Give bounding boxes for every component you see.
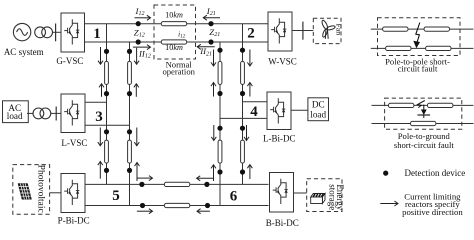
wire converter3 top xyxy=(85,101,107,103)
svg-text:5: 5 xyxy=(112,188,120,204)
wire vertical pole line left outer (1-3-5) xyxy=(106,24,108,185)
photovoltaic dashed box xyxy=(13,165,50,215)
svg-text:short-circuit fault: short-circuit fault xyxy=(394,140,455,150)
reactor L13 top inner xyxy=(128,61,132,84)
busbar mark top-left xyxy=(55,24,57,42)
wire top bus positive pole row1 xyxy=(85,23,269,25)
svg-text:load: load xyxy=(7,111,23,121)
reactor 10km top (line 1-2 pos pole) xyxy=(161,22,186,26)
energy storage label xyxy=(327,184,344,210)
arrow I12 xyxy=(135,17,151,19)
wire converter6 to energy storage xyxy=(294,192,307,194)
converter U3 box xyxy=(61,94,85,133)
reactor on 5-6 top pole xyxy=(164,182,189,186)
arrow II12 xyxy=(133,46,151,48)
svg-text:positive direction: positive direction xyxy=(402,207,463,217)
reactor L46 left xyxy=(218,140,222,163)
legend reactors top line xyxy=(383,27,408,31)
wire converter2 to fan xyxy=(292,30,313,32)
legend direction arrow xyxy=(380,203,398,205)
svg-text:operation: operation xyxy=(162,67,195,77)
legend pole-to-ground dashed box xyxy=(385,98,462,129)
detection dots vertical links bottom pair xyxy=(104,129,109,134)
arrow link 3-5 up outer xyxy=(99,162,101,179)
arrows link 4-6 down xyxy=(213,125,215,141)
converter U6 box xyxy=(270,173,294,213)
transformer T1 xyxy=(35,27,53,38)
svg-text:Detection device: Detection device xyxy=(405,168,466,178)
reactor L35 outer xyxy=(105,140,109,163)
legend reactors bottom line xyxy=(386,46,411,50)
corner arrows at node6 xyxy=(213,165,215,181)
wire T1 to bar xyxy=(52,31,61,33)
wire converter3 bottom xyxy=(85,124,130,126)
wire bottom bus negative pole row1 xyxy=(85,41,269,43)
detection dots vertical links top pair xyxy=(104,49,109,54)
fan icon xyxy=(321,20,336,39)
reactor L46 right xyxy=(241,140,245,163)
svg-text:L-VSC: L-VSC xyxy=(61,138,87,148)
svg-text:4: 4 xyxy=(250,104,258,120)
photovoltaic panel icon xyxy=(18,184,32,200)
energy storage dashed box xyxy=(307,179,342,212)
svg-text:L-Bi-DC: L-Bi-DC xyxy=(263,134,296,144)
reactor L24 top right xyxy=(241,61,245,84)
reactor L24 top left xyxy=(218,61,222,84)
DC load box xyxy=(308,98,329,121)
svg-text:circuit fault: circuit fault xyxy=(398,63,438,73)
svg-text:B-Bi-DC: B-Bi-DC xyxy=(266,218,299,228)
arrow 5-6 bottom right xyxy=(197,210,210,212)
arrow I21 xyxy=(203,17,220,19)
arrow link 4-6 up outer xyxy=(249,165,251,179)
arrow 5-6 bottom left xyxy=(137,210,153,212)
svg-text:G-VSC: G-VSC xyxy=(56,56,83,66)
reactor L35 inner xyxy=(128,140,132,163)
svg-text:AC system: AC system xyxy=(4,47,44,57)
svg-text:W-VSC: W-VSC xyxy=(268,56,297,66)
wire top bus row3 (5-6) xyxy=(85,183,269,185)
wire converter4 to DC load xyxy=(291,109,308,111)
fan dashed box xyxy=(313,18,341,43)
AC load box xyxy=(3,101,29,123)
converter U2 box xyxy=(268,12,292,51)
lightning bolt pole-to-pole xyxy=(413,23,420,49)
svg-text:3: 3 xyxy=(95,109,103,125)
AC system source xyxy=(13,23,30,40)
arrows link 3-5 down xyxy=(99,128,101,146)
converter U5 box xyxy=(61,174,85,213)
legend pole-to-pole dashed box xyxy=(378,18,461,56)
wire T2 to converter 3 xyxy=(50,112,61,114)
wire converter4 top xyxy=(243,101,268,103)
transformer T2 xyxy=(33,108,51,119)
svg-text:Photovoltaic: Photovoltaic xyxy=(35,165,45,213)
wire PV to converter 5 xyxy=(50,192,61,194)
arrow II21 xyxy=(197,46,215,48)
reactor 10km bottom (line 1-2 neg pole) xyxy=(161,40,186,44)
wire vertical pole line left inner (1-3-5) xyxy=(129,42,131,206)
arrows link 2-4 down xyxy=(213,50,215,67)
wire vertical pole line right outer (2-4-6) xyxy=(219,42,221,206)
reactor L13 top outer xyxy=(105,61,109,84)
wire bottom bus row3 (5-6) xyxy=(85,205,269,207)
busbar mark top-right xyxy=(302,22,304,40)
arrows link 2-4 up xyxy=(213,83,215,97)
svg-text:Fan: Fan xyxy=(334,23,343,35)
legend pole-to-ground top line xyxy=(372,104,474,106)
normal operation dashed box xyxy=(154,5,196,59)
arrows link 1-3 up xyxy=(101,84,103,97)
corner arrows at node5 xyxy=(136,163,138,182)
svg-text:10km: 10km xyxy=(165,10,183,19)
svg-text:storage: storage xyxy=(327,184,337,210)
svg-text:1: 1 xyxy=(93,26,101,42)
legend pole-to-pole lines xyxy=(371,28,474,30)
wire AC load to transformer xyxy=(27,112,34,114)
svg-text:load: load xyxy=(310,109,326,119)
busbar mark mid-left xyxy=(55,107,57,121)
battery icon xyxy=(311,194,325,204)
svg-text:P-Bi-DC: P-Bi-DC xyxy=(58,216,90,226)
lightning bolt pole-to-ground xyxy=(418,101,431,119)
reactor on 5-6 bottom pole xyxy=(164,203,189,207)
converter U1 box xyxy=(61,13,85,52)
current labels xyxy=(134,6,220,60)
wire converter4 bottom xyxy=(220,117,267,119)
svg-text:2: 2 xyxy=(247,26,255,42)
legend pole-to-ground bottom line xyxy=(372,123,474,125)
svg-text:10km: 10km xyxy=(165,43,183,52)
arrows link 1-3 down xyxy=(100,47,102,64)
converter U4 box xyxy=(267,92,291,130)
detection dots row3 xyxy=(139,182,144,187)
svg-text:DC: DC xyxy=(312,100,325,110)
wire vertical pole line right inner (2-4-6) xyxy=(242,24,244,185)
svg-text:6: 6 xyxy=(230,189,238,205)
current arrows xyxy=(100,18,250,212)
legend detection device dot xyxy=(383,171,388,176)
detection dots row1 xyxy=(104,21,245,208)
